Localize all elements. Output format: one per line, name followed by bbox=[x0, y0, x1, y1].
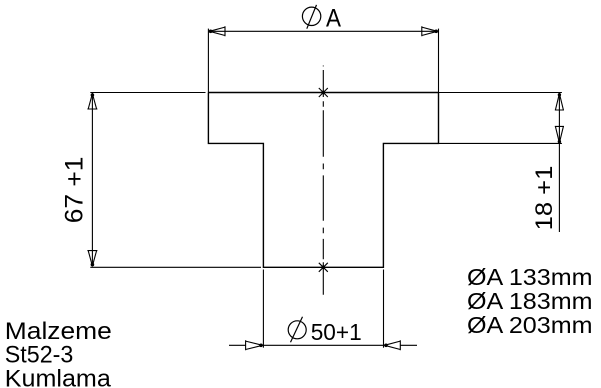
dimension diameter 50+1: dimension line bbox=[229, 344, 417, 346]
dimension diameter A: dimension line bbox=[208, 29, 438, 93]
svg-text:18 +1: 18 +1 bbox=[531, 166, 558, 231]
dimension 67+1: extension lines bbox=[90, 93, 261, 268]
dimension diameter 50+1: label bbox=[288, 317, 362, 345]
svg-text:ØA 183mm: ØA 183mm bbox=[467, 288, 593, 314]
dimension 18+1: dimension line bbox=[558, 93, 560, 233]
dimension diameter 50+1: extension lines bbox=[263, 270, 383, 348]
dimension 18+1: lower arrowhead bbox=[555, 126, 564, 143]
dimension 67+1: dimension line bbox=[91, 93, 93, 267]
dimension diameter 50+1: right arrowhead bbox=[384, 340, 400, 350]
centerline bbox=[322, 65, 324, 295]
note: material text block bbox=[5, 318, 112, 388]
svg-text:ØA 203mm: ØA 203mm bbox=[467, 312, 593, 338]
dimension 18+1: upper arrowhead bbox=[555, 93, 564, 110]
dimension 18+1: extension lines bbox=[439, 93, 562, 144]
dimension 67+1: bottom arrowhead bbox=[87, 251, 97, 267]
dimension 67+1: top arrowhead bbox=[87, 93, 97, 109]
center mark bottom bbox=[319, 263, 328, 272]
svg-text:Kumlama: Kumlama bbox=[5, 365, 112, 388]
svg-text:67 +1: 67 +1 bbox=[60, 157, 88, 224]
center mark top bbox=[319, 88, 328, 97]
part outline (T-profile) bbox=[208, 93, 438, 268]
note: diameter table bbox=[467, 264, 593, 338]
dimension diameter A: right arrowhead bbox=[422, 26, 438, 36]
dimension diameter A: left arrowhead bbox=[209, 26, 225, 36]
svg-text:A: A bbox=[326, 5, 341, 33]
svg-text:ØA 133mm: ØA 133mm bbox=[467, 264, 593, 290]
dimension diameter A: label bbox=[302, 5, 341, 33]
svg-text:50+1: 50+1 bbox=[311, 319, 362, 345]
dimension diameter 50+1: left arrowhead bbox=[246, 340, 263, 350]
